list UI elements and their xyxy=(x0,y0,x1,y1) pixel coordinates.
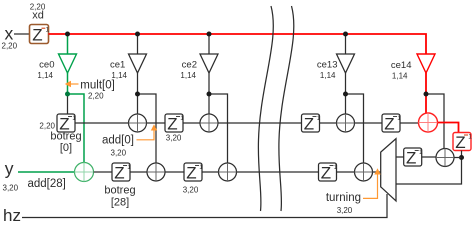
wire row2: C1 to D1 xyxy=(165,171,184,173)
svg-text:Z: Z xyxy=(384,114,394,133)
adder A13 xyxy=(337,114,355,132)
svg-text:3,20: 3,20 xyxy=(111,148,127,157)
svg-text:1,14: 1,14 xyxy=(111,71,127,80)
break squiggle right xyxy=(279,6,294,211)
wire ce1 hook to adder C1 xyxy=(138,94,157,163)
wire adder F1 to node xyxy=(454,157,462,159)
mux turning xyxy=(381,139,396,201)
wire row2: GA to botreg28 xyxy=(94,171,113,173)
register red RZ xyxy=(453,133,472,152)
svg-text:ce13: ce13 xyxy=(317,60,338,71)
svg-text:xd: xd xyxy=(32,10,44,22)
wire row1: A2 across break to B2 xyxy=(218,122,302,124)
svg-text:3,20: 3,20 xyxy=(3,184,19,193)
adder A2 xyxy=(200,114,218,132)
svg-text:hz: hz xyxy=(3,206,21,225)
register botreg28 xyxy=(104,163,135,209)
wire ce2 output xyxy=(208,73,210,94)
wire row1: B2 to A13 xyxy=(320,122,337,124)
register B3 xyxy=(382,114,401,133)
svg-text:ce2: ce2 xyxy=(182,60,197,71)
node mult junction ce14 xyxy=(424,92,429,97)
svg-text:y: y xyxy=(5,159,14,179)
adder red RA xyxy=(419,113,438,132)
svg-text:1: 1 xyxy=(317,115,321,122)
wire mux to E1 xyxy=(396,156,404,158)
node mult junction ce2 xyxy=(207,92,212,97)
wire row2: C2 across break to D2 xyxy=(237,171,319,173)
wire ce14 output (red) xyxy=(425,73,427,94)
wire ce0 to botreg0 xyxy=(67,94,69,114)
wire ce1 output xyxy=(137,73,139,94)
wire red main line xyxy=(49,34,427,54)
wire ce1 to adder A1 xyxy=(137,94,139,114)
svg-text:ce0: ce0 xyxy=(39,60,54,71)
wire row1: A1 to B1 xyxy=(147,122,166,124)
svg-text:Z: Z xyxy=(406,148,416,167)
svg-text:add[0]: add[0] xyxy=(102,135,134,147)
svg-text:[0]: [0] xyxy=(60,142,72,154)
node mult junction ce1 xyxy=(135,92,140,97)
wire ce13 to adder A13 xyxy=(345,94,347,114)
svg-text:2,20: 2,20 xyxy=(88,91,104,100)
node tap junction ce1 xyxy=(135,32,140,37)
wire row1: B1 to A2 xyxy=(183,122,200,124)
node tap junction ce2 xyxy=(207,32,212,37)
svg-text:Z: Z xyxy=(304,114,314,133)
svg-text:1,14: 1,14 xyxy=(180,71,196,80)
adder green GA xyxy=(75,163,94,182)
adder C2 xyxy=(219,163,237,181)
svg-text:1: 1 xyxy=(199,164,203,171)
register B1 xyxy=(165,114,184,143)
adder F1 xyxy=(436,149,454,167)
multiplier ce2 xyxy=(180,54,218,80)
svg-text:3,20: 3,20 xyxy=(183,186,199,195)
svg-text:Z: Z xyxy=(321,163,331,182)
svg-text:[28]: [28] xyxy=(111,197,129,209)
svg-text:add[28]: add[28] xyxy=(28,178,66,190)
wire ce2 tap drop xyxy=(208,34,210,54)
wire ce13 hook to adder C3 xyxy=(346,94,364,163)
node feedback junction xyxy=(459,155,464,160)
wire ce14 to red adder (red) xyxy=(425,94,427,114)
svg-text:2,20: 2,20 xyxy=(39,122,55,131)
wire row1: botreg0 to A1 xyxy=(75,122,129,124)
svg-text:botreg: botreg xyxy=(50,130,81,142)
node hz label xyxy=(3,206,21,225)
svg-text:1: 1 xyxy=(127,164,131,171)
wire y input (green) xyxy=(18,171,75,173)
multiplier ce0 xyxy=(37,54,76,80)
svg-text:1: 1 xyxy=(419,149,423,156)
svg-text:3,20: 3,20 xyxy=(166,134,182,143)
node tap junction ce13 xyxy=(343,32,348,37)
register botreg0 xyxy=(39,114,81,154)
wire row1: A13 to B3 xyxy=(355,122,383,124)
svg-text:botreg: botreg xyxy=(104,184,135,196)
svg-text:ce1: ce1 xyxy=(110,60,125,71)
svg-text:Z: Z xyxy=(114,163,124,182)
svg-text:1: 1 xyxy=(397,115,401,122)
svg-text:2,20: 2,20 xyxy=(2,41,18,50)
register xd xyxy=(30,25,50,45)
svg-text:1,14: 1,14 xyxy=(320,71,336,80)
svg-text:1: 1 xyxy=(180,115,184,122)
multiplier ce13 xyxy=(317,54,355,80)
wire ce13 output xyxy=(345,73,347,94)
adder C3 xyxy=(355,163,373,181)
register xd value labels xyxy=(30,3,46,22)
wire ce1 tap drop xyxy=(137,34,139,54)
multiplier ce14 (red) xyxy=(391,54,435,80)
wire ce0 output (green) xyxy=(67,73,69,94)
svg-text:mult[0]: mult[0] xyxy=(80,80,115,92)
wire row2: D1 to C2 xyxy=(202,171,219,173)
svg-text:1: 1 xyxy=(468,133,472,140)
svg-text:ce14: ce14 xyxy=(391,60,412,71)
wire x input xyxy=(14,33,30,35)
node mult junction ce0 xyxy=(65,92,70,97)
svg-text:1: 1 xyxy=(46,26,50,33)
wire ce2 hook to adder C2 xyxy=(209,94,228,163)
node x label xyxy=(2,23,18,50)
wire ce0 tap drop (green) xyxy=(67,34,69,54)
label add[0] callout xyxy=(102,124,157,157)
svg-text:turning: turning xyxy=(326,192,361,204)
wire ce0 hook to green adder xyxy=(68,94,85,163)
wire ce2 to adder A2 xyxy=(208,94,210,114)
adder A1 xyxy=(129,114,147,132)
svg-text:1,14: 1,14 xyxy=(392,71,408,80)
register E1 xyxy=(404,148,423,167)
break squiggle left xyxy=(258,6,273,211)
wire row1: B3 to red adder xyxy=(400,122,419,124)
svg-text:Z: Z xyxy=(167,114,177,133)
wire red adder to red register xyxy=(438,123,459,133)
label turning callout xyxy=(326,168,381,215)
wire red register down to node xyxy=(461,151,463,158)
node mult junction ce13 xyxy=(343,92,348,97)
node tap junction ce0 xyxy=(65,32,70,37)
label mult[0] callout xyxy=(65,80,115,101)
wire row2: botreg28 to C1 xyxy=(130,171,147,173)
adder C1 xyxy=(147,163,165,181)
wire row2: D2 to C3 xyxy=(337,171,355,173)
svg-text:Z: Z xyxy=(32,25,42,44)
wire ce13 tap drop xyxy=(345,34,347,54)
wire hz line xyxy=(22,194,387,218)
wire feedback down and left to mux xyxy=(396,158,462,185)
svg-text:1,14: 1,14 xyxy=(37,71,53,80)
multiplier ce1 xyxy=(110,54,147,80)
svg-text:1: 1 xyxy=(72,115,76,122)
wire E1 to F1 xyxy=(422,156,436,158)
register D2 xyxy=(319,163,338,182)
register D1 xyxy=(183,163,204,195)
svg-text:Z: Z xyxy=(455,133,465,152)
node y label xyxy=(3,159,66,193)
wire row2: C3 to mux xyxy=(373,171,382,173)
svg-text:1: 1 xyxy=(334,164,338,171)
register B2 xyxy=(302,114,321,133)
svg-text:3,20: 3,20 xyxy=(337,206,353,215)
svg-text:Z: Z xyxy=(186,163,196,182)
wire ce14 hook to adder F1 xyxy=(426,94,444,149)
